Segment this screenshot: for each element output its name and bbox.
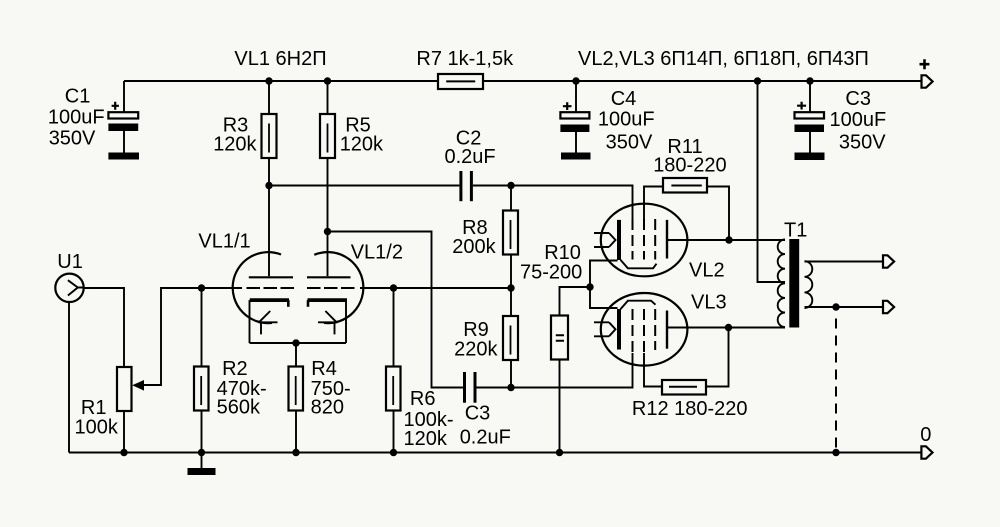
svg-text:T1: T1 <box>784 219 807 241</box>
svg-text:350V: 350V <box>606 132 653 154</box>
VL1/1 heater <box>258 311 277 334</box>
svg-text:180-220: 180-220 <box>653 154 726 176</box>
svg-text:C1: C1 <box>65 86 91 108</box>
C1 polarity plus <box>112 102 119 110</box>
svg-text:0.2uF: 0.2uF <box>445 146 496 168</box>
VL1/1 cathode <box>250 298 289 302</box>
capacitor C2 <box>459 171 462 201</box>
junction dot: R3 bottom / VL1-1 anode node <box>265 182 272 189</box>
transformer T1 primary winding <box>778 240 785 328</box>
VL3 cathode <box>617 309 621 350</box>
terminal arrow: 0V output <box>921 446 932 458</box>
transformer T1 secondary winding <box>805 261 813 308</box>
resistor R5 <box>327 81 329 232</box>
ground symbol <box>201 453 203 469</box>
junction dot: rail/C3 <box>806 77 813 84</box>
capacitor C1 plates <box>108 112 138 118</box>
terminal arrow: speaker bottom <box>883 301 894 313</box>
svg-text:200k: 200k <box>452 236 496 258</box>
wire: U1 to bottom rail <box>68 302 70 453</box>
label: + (output terminal plus) <box>920 59 930 69</box>
capacitor C1 lead top <box>123 81 125 153</box>
svg-text:R7 1k-1,5k: R7 1k-1,5k <box>416 48 514 70</box>
capacitor C4 lead <box>575 81 577 153</box>
svg-text:R4: R4 <box>311 358 337 380</box>
resistor R7 <box>438 74 483 89</box>
junction dot: VL2 anode node <box>725 236 732 243</box>
wire: VL2 cathode to junction <box>590 261 618 288</box>
junction dot: dashed wire to rail <box>832 449 839 456</box>
tube VL3 envelope <box>601 293 688 366</box>
junction dot: C3/R9/VL3 grid node <box>507 384 514 391</box>
svg-text:120k: 120k <box>404 428 448 450</box>
VL1/2 heater <box>318 311 337 334</box>
junction dot: rail/R4 <box>292 449 299 456</box>
svg-text:R6: R6 <box>410 388 436 410</box>
transformer T1 core <box>789 239 799 328</box>
junction dot: rail/R10 <box>556 449 563 456</box>
junction dot: VL3 anode node <box>725 324 732 331</box>
svg-text:R12 180-220: R12 180-220 <box>632 398 748 420</box>
junction dot: rail/R5 <box>324 77 331 84</box>
C4 polarity plus <box>563 102 572 110</box>
capacitor C4 plates <box>560 112 589 118</box>
svg-text:U1: U1 <box>57 251 83 273</box>
resistor R10 <box>560 287 591 453</box>
wire: U1 to R1 top <box>84 288 124 367</box>
svg-text:VL2,VL3 6П14П, 6П18П, 6П43П: VL2,VL3 6П14П, 6П18П, 6П43П <box>578 48 869 70</box>
svg-text:100uF: 100uF <box>830 109 887 131</box>
wire: C2 to VL2 grid <box>473 186 633 220</box>
junction dot: C2/R8/VL2 grid node <box>507 182 514 189</box>
ground bar of C4 <box>561 153 591 160</box>
VL1/1 grid (dashed) and lead <box>202 287 243 289</box>
junction dot: VL1 cathode node <box>292 339 299 346</box>
wire: secondary top to speaker terminal <box>805 261 883 263</box>
wire: B+ feed to T1 primary center tap <box>758 81 786 282</box>
wire: +B top rail right segment (R7 to + terminal) <box>483 80 921 82</box>
VL2 control grid (dashed) <box>632 219 634 260</box>
connector U1 <box>55 274 83 302</box>
svg-text:R9: R9 <box>463 319 489 341</box>
wire: bottom (0V) rail <box>69 452 921 454</box>
svg-text:220k: 220k <box>454 339 498 361</box>
junction dot: rail/C4 <box>572 77 579 84</box>
svg-text:100uF: 100uF <box>598 109 655 131</box>
svg-text:100k: 100k <box>75 417 119 439</box>
wire: +B top rail left segment (C1 to R7) <box>124 80 438 82</box>
VL2 anode <box>666 220 668 259</box>
VL1/2 anode <box>327 232 329 277</box>
dashed wire: secondary to ground rail <box>835 319 837 453</box>
svg-text:VL1/2: VL1/2 <box>351 242 403 264</box>
resistor R6 <box>393 288 395 453</box>
R1 wiper arrow <box>139 288 202 385</box>
wire: VL3 anode to T1 primary bottom <box>729 327 786 329</box>
svg-text:350V: 350V <box>839 132 886 154</box>
junction dot: secondary bottom tap <box>832 303 839 310</box>
svg-text:350V: 350V <box>49 128 96 150</box>
ground bar of C1 <box>108 153 139 160</box>
resistor R4 <box>295 343 297 453</box>
junction dot: R5 bottom / VL1-2 anode node <box>324 228 331 235</box>
wire: C3 to VL3 grid <box>477 353 633 388</box>
junction dot: rail/T1 feed <box>754 77 761 84</box>
resistor R8 <box>510 186 512 289</box>
terminal arrow: speaker top <box>883 255 894 267</box>
svg-text:820: 820 <box>311 396 344 418</box>
VL3 anode <box>666 311 668 349</box>
junction dot: VL2/VL3 cathodes and R10 <box>586 283 593 290</box>
svg-text:560k: 560k <box>217 396 261 418</box>
wire: secondary bottom to speaker terminal <box>805 306 883 308</box>
ground bar of C3 <box>795 153 825 161</box>
junction dot: rail/R1 <box>120 449 127 456</box>
C3 polarity plus <box>797 102 806 110</box>
wire: VL1/2 anode node to C3 <box>328 232 464 388</box>
VL2 heater <box>594 233 616 247</box>
wire: VL1/1 anode node to C2 <box>269 185 459 187</box>
resistor R9 <box>510 288 512 388</box>
junction dot: VL1/1 grid node <box>198 284 205 291</box>
VL1/1 anode <box>268 186 270 277</box>
resistor R12 <box>662 380 706 395</box>
junction dot: VL1/2 grid node <box>390 284 397 291</box>
capacitor C3 plates <box>795 112 825 118</box>
svg-text:75-200: 75-200 <box>520 262 582 284</box>
VL3 suppressor grid (dashed) <box>654 309 656 350</box>
junction dot: rail/R2/ground <box>198 449 205 456</box>
svg-text:VL1 6Н2П: VL1 6Н2П <box>234 48 326 70</box>
svg-text:C4: C4 <box>611 88 637 110</box>
capacitor C3 (coupling) <box>463 372 466 403</box>
svg-text:C3: C3 <box>845 88 871 110</box>
wire: VL2 anode to T1 primary top <box>729 239 785 241</box>
VL2 cathode <box>617 220 621 260</box>
svg-text:0.2uF: 0.2uF <box>460 427 511 449</box>
terminal arrow: +B output <box>922 75 933 87</box>
tube VL1 envelope <box>233 252 364 323</box>
svg-text:0: 0 <box>920 424 931 446</box>
svg-text:100uF: 100uF <box>48 107 105 129</box>
VL3 heater <box>594 322 616 336</box>
junction dot: R8/R9/VL1-2 grid node <box>507 284 514 291</box>
VL3 control grid (dashed) <box>632 309 634 353</box>
VL1/2 cathode <box>308 298 348 302</box>
svg-text:120k: 120k <box>340 133 384 155</box>
potentiometer R1 <box>117 367 132 411</box>
wire: VL3 cathode to junction <box>590 287 618 308</box>
VL2 suppressor grid (dashed) <box>654 219 656 260</box>
wire: paraphase tap to VL1/2 grid <box>360 287 511 289</box>
svg-text:VL3: VL3 <box>691 291 727 313</box>
svg-text:VL2: VL2 <box>689 259 725 281</box>
svg-text:R2: R2 <box>222 358 248 380</box>
VL3 screen grid (dashed) and lead to R12 <box>644 353 662 387</box>
tube VL2 envelope <box>601 204 688 277</box>
VL2 screen grid (dashed) and lead to R11 <box>644 187 663 220</box>
resistor R11 <box>663 178 707 193</box>
junction dot: rail/R3 <box>265 77 272 84</box>
VL1/2 grid (dashed) <box>307 287 356 289</box>
resistor R2 <box>201 288 203 453</box>
capacitor C3 (filter) lead <box>809 81 811 153</box>
resistor R3 <box>268 81 270 186</box>
junction dot: rail/R6 <box>390 449 397 456</box>
svg-text:120k: 120k <box>213 133 257 155</box>
svg-text:C3: C3 <box>465 402 491 424</box>
wire: cathode bus of VL1 <box>250 342 347 344</box>
svg-text:VL1/1: VL1/1 <box>198 230 250 252</box>
